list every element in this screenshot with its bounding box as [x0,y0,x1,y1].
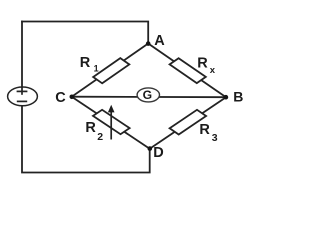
svg-text:1: 1 [94,63,99,73]
svg-text:R: R [199,122,210,138]
svg-text:D: D [153,145,163,161]
svg-text:x: x [210,65,216,76]
svg-text:B: B [233,89,243,105]
svg-text:C: C [55,90,66,106]
svg-text:A: A [154,33,165,49]
svg-text:R: R [197,55,208,71]
svg-text:2: 2 [97,131,103,143]
svg-text:R: R [80,55,91,71]
svg-text:R: R [85,120,96,136]
svg-text:3: 3 [212,132,218,144]
svg-text:G: G [143,88,152,102]
